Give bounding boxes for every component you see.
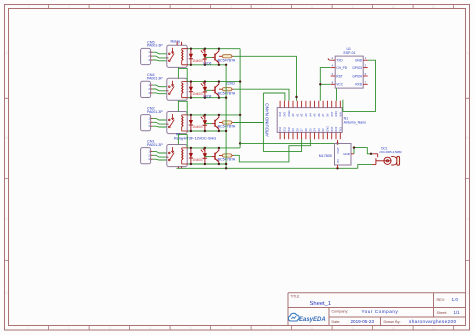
svg-text:D11: D11 [284,127,287,132]
resistor 220 row CN5 [219,55,234,58]
svg-text:TX1: TX1 [339,126,342,131]
svg-text:6: 6 [230,327,232,331]
svg-text:11: 11 [432,5,436,9]
svg-text:RXD: RXD [355,83,362,87]
svg-text:3: 3 [109,327,111,331]
coil bottom rail wire [188,97,226,99]
supply wire to regulator [240,142,337,144]
LED indicator row CN4 [201,80,212,99]
transistor BC547BTA row CN2 [205,114,236,132]
wire jack sleeve to ground bus [358,165,372,169]
svg-text:GND: GND [355,59,363,63]
svg-text:Sheet:: Sheet: [437,311,448,315]
transistor BC547BTA row CN5 [205,48,236,67]
svg-text:6: 6 [230,5,232,9]
relay inter-row wires [178,67,187,147]
svg-text:ML7805: ML7805 [319,154,332,158]
LED indicator row CN1 [201,147,208,166]
coil bottom rail wire [188,130,226,132]
title block [288,293,466,326]
relay body for CN2 [167,112,188,134]
svg-text:2019-05-23: 2019-05-23 [351,319,375,324]
diode 1N4007 row CN4 [189,80,204,99]
connector CN1 PA001-3P [141,140,164,164]
svg-text:D12: D12 [279,126,282,131]
svg-text:TXD: TXD [336,59,343,63]
svg-text:GND: GND [343,152,351,156]
svg-text:1: 1 [28,5,30,9]
svg-text:ARDUINO NANO: ARDUINO NANO [265,103,270,137]
LED indicator row CN2 [201,114,208,132]
connector CN2 PA001-3P [141,107,164,131]
wire row4 signal to arduino [234,139,311,162]
coil top rail wire [188,114,240,116]
svg-text:ESP-01: ESP-01 [344,51,356,55]
svg-text:4: 4 [149,5,151,9]
wire row1 signal to arduino [234,56,297,100]
svg-text:Arduino_Nano: Arduino_Nano [344,121,366,125]
svg-text:7: 7 [271,5,273,9]
ground bus bottom [177,167,358,169]
ground rail vertical [225,65,227,169]
svg-text:PA001-3P: PA001-3P [147,110,163,114]
power jack DC1 DCJ005-2.5MM [372,146,402,165]
svg-text:3: 3 [109,5,111,9]
svg-text:1/1: 1/1 [454,310,461,315]
svg-text:1N4007: 1N4007 [193,92,204,96]
svg-text:PA001-3P: PA001-3P [147,143,163,147]
svg-text:BC547BTA: BC547BTA [218,58,236,62]
EasyEDA logo [288,313,325,323]
diode 1N4007 row CN5 [189,48,204,67]
relay body for CN5 [167,45,188,67]
svg-text:BC547BTA: BC547BTA [218,91,236,95]
resistor 220 row CN4 [219,82,235,91]
coil top rail wire [188,81,240,83]
svg-text:LED6: LED6 [203,62,211,66]
wire regulator GND to jack [354,148,373,154]
wire ESP CH_PD/VCC to arduino [320,68,330,101]
coil bottom rail wire [188,64,226,66]
svg-text:1N4007: 1N4007 [193,125,204,129]
svg-text:2: 2 [68,327,70,331]
relay body for CN4 [167,78,188,100]
connector CN4 PA001-3P [141,73,164,97]
relay row1 top pin stubs [177,42,182,46]
svg-text:LED8: LED8 [203,94,211,98]
svg-text:1N4007: 1N4007 [193,59,204,63]
svg-text:1.0: 1.0 [452,297,459,302]
svg-text:10: 10 [391,5,395,9]
svg-text:GND: GND [327,126,330,132]
relay row4 stubs to bus [178,167,181,169]
MCU module N1 Arduino Nano [265,101,343,140]
svg-text:EasyEDA: EasyEDA [299,317,326,323]
svg-text:D10: D10 [288,126,291,131]
wires CN4 to relay [152,85,166,94]
svg-text:Sheet_1: Sheet_1 [310,301,332,307]
svg-text:GPIO0: GPIO0 [352,74,362,78]
svg-text:8: 8 [311,327,313,331]
svg-text:9: 9 [352,327,354,331]
wire row2 signal to arduino [234,89,289,101]
svg-text:Relay: Relay [171,40,181,44]
relay body for CN1 [167,145,188,167]
svg-text:Drawn By:: Drawn By: [384,320,401,324]
svg-text:D13: D13 [279,111,282,116]
svg-text:10: 10 [391,327,395,331]
svg-text:Your Company: Your Company [362,309,399,314]
svg-text:11: 11 [432,327,436,331]
svg-text:BC547BTA: BC547BTA [218,125,236,129]
regulator ML7805 [319,140,354,168]
wire ESP GND to arduino [343,60,376,111]
svg-text:220Ω: 220Ω [226,82,235,86]
svg-text:RST: RST [336,74,342,78]
wifi module U1 ESP-01 [328,47,368,88]
svg-text:TITLE:: TITLE: [291,295,301,299]
svg-text:RelayHT3F-12VDC-SHG: RelayHT3F-12VDC-SHG [174,136,216,140]
svg-text:GPIO2: GPIO2 [352,66,362,70]
wire ESP to arduino GND pin [336,89,338,101]
svg-text:sharonvarghese200: sharonvarghese200 [409,319,456,324]
svg-text:GND: GND [335,111,338,117]
svg-text:8: 8 [311,5,313,9]
svg-text:DCJ005-2.5MM: DCJ005-2.5MM [381,150,402,154]
svg-text:9: 9 [352,5,354,9]
wires CN2 to relay [152,118,166,127]
transistor BC547BTA row CN4 [205,80,236,99]
svg-text:7: 7 [271,327,273,331]
svg-text:VCC: VCC [336,83,343,87]
wires CN1 to relay [152,151,166,160]
svg-text:IN: IN [336,160,340,163]
svg-text:5: 5 [190,327,192,331]
svg-text:PA001-3P: PA001-3P [147,77,163,81]
svg-text:5: 5 [190,5,192,9]
svg-text:REV:: REV: [437,298,445,302]
supply rail vertical [239,49,241,148]
svg-text:3V3: 3V3 [284,112,287,117]
svg-text:RX0: RX0 [335,126,338,131]
wire row3 signal to arduino [234,93,302,152]
wires CN5 to relay [152,52,166,61]
svg-text:VIN: VIN [339,112,342,116]
svg-text:1N4007: 1N4007 [193,158,204,162]
transistor BC547BTA row CN1 [205,147,236,166]
diode 1N4007 row CN2 [189,114,204,132]
coil top rail wire [188,48,240,50]
diode 1N4007 row CN1 [189,147,204,166]
svg-text:1: 1 [28,327,30,331]
resistor 220 row CN1 [219,154,234,157]
coil top rail wire [188,147,240,149]
svg-text:RST: RST [331,111,334,116]
svg-text:PA001-3P: PA001-3P [147,44,163,48]
resistor 220 row CN2 [219,121,234,124]
svg-text:2: 2 [68,5,70,9]
svg-text:AREF: AREF [288,109,291,116]
svg-text:CH_PD: CH_PD [336,66,348,70]
svg-text:BC547BTA: BC547BTA [218,158,236,162]
svg-text:OUT: OUT [336,147,340,154]
coil bottom rail wire [188,163,226,165]
LED indicator row CN5 [201,48,212,67]
svg-text:Date:: Date: [332,320,341,324]
svg-text:5V: 5V [327,113,330,116]
svg-text:4: 4 [149,327,151,331]
svg-text:Company:: Company: [332,310,349,314]
svg-text:RST: RST [331,126,334,131]
connector CN5 PA001-3P [141,40,164,64]
